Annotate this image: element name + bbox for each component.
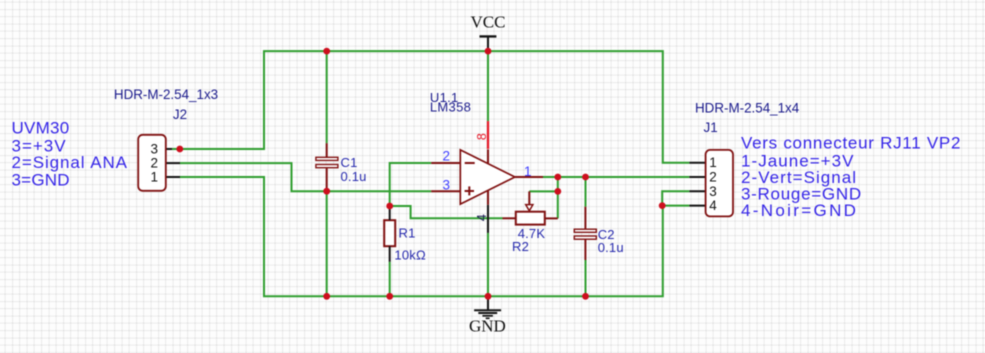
- svg-text:1: 1: [524, 164, 532, 179]
- svg-text:2: 2: [709, 170, 717, 185]
- svg-text:1: 1: [709, 155, 717, 170]
- svg-text:2: 2: [443, 149, 451, 164]
- svg-text:2=Signal ANA: 2=Signal ANA: [12, 153, 128, 172]
- svg-text:3=GND: 3=GND: [12, 170, 70, 189]
- svg-text:0.1u: 0.1u: [341, 169, 367, 184]
- svg-text:2: 2: [151, 156, 159, 171]
- svg-text:4: 4: [475, 214, 489, 221]
- svg-text:HDR-M-2.54_1x4: HDR-M-2.54_1x4: [695, 100, 800, 115]
- svg-text:UVM30: UVM30: [12, 118, 70, 137]
- svg-text:3: 3: [151, 142, 159, 157]
- svg-text:GND: GND: [469, 317, 506, 336]
- svg-text:0.1u: 0.1u: [598, 240, 624, 255]
- svg-text:3: 3: [709, 184, 717, 199]
- svg-text:J2: J2: [173, 107, 187, 122]
- svg-text:VCC: VCC: [471, 13, 506, 32]
- svg-text:4: 4: [709, 198, 717, 213]
- svg-text:1: 1: [151, 170, 159, 185]
- svg-text:LM358: LM358: [430, 100, 471, 115]
- svg-text:3: 3: [443, 177, 451, 192]
- svg-text:4-Noir=GND: 4-Noir=GND: [741, 201, 858, 220]
- svg-text:Vers connecteur RJ11 VP2: Vers connecteur RJ11 VP2: [741, 134, 961, 153]
- svg-text:10kΩ: 10kΩ: [394, 248, 426, 263]
- svg-text:HDR-M-2.54_1x3: HDR-M-2.54_1x3: [114, 87, 218, 102]
- svg-text:J1: J1: [704, 120, 718, 135]
- svg-text:8: 8: [475, 133, 489, 140]
- svg-text:R1: R1: [399, 226, 416, 241]
- svg-text:R2: R2: [512, 239, 529, 254]
